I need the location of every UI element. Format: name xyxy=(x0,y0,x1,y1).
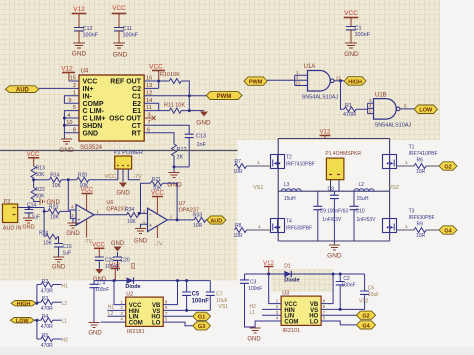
wire T2 gate xyxy=(247,165,271,167)
U1B pin numbers xyxy=(369,98,407,114)
net label L1 at LIN xyxy=(250,310,282,316)
wire PWM to U1A inputs xyxy=(267,75,307,85)
capacitor C7 10uF xyxy=(206,281,228,311)
diode D2 on rail xyxy=(125,277,140,290)
wire R20 to P2 pin1 / net VCC1 xyxy=(89,179,118,181)
feedback wire with R21 over U7 xyxy=(141,183,178,220)
wire divider node to R14 xyxy=(34,179,50,181)
svg-text:E2: E2 xyxy=(132,101,141,108)
node dot REF OUT xyxy=(157,80,160,83)
svg-text:4: 4 xyxy=(276,316,279,321)
svg-text:LOW: LOW xyxy=(16,318,30,324)
wire R10 to PWM net xyxy=(181,81,189,111)
power VCC above U7 xyxy=(151,191,164,215)
svg-text:Diode: Diode xyxy=(284,277,299,283)
svg-text:SN54ALS10AJ: SN54ALS10AJ xyxy=(375,123,412,129)
resistor R6 10R (T1 gate) xyxy=(414,158,426,176)
svg-text:E1: E1 xyxy=(132,108,141,115)
port LOW (input, bottom-left) xyxy=(10,318,34,325)
wire bridge left rail xyxy=(277,139,279,242)
resistor R12 2K xyxy=(172,144,187,167)
wire P3 pin1 to input node xyxy=(18,207,44,209)
ground below bridge xyxy=(327,241,342,260)
svg-text:+: + xyxy=(78,218,81,224)
svg-text:GND: GND xyxy=(113,52,128,59)
speaker connector P1 4OHMSPKR xyxy=(325,151,361,191)
svg-text:470R: 470R xyxy=(41,343,53,349)
node on U1A output xyxy=(339,79,342,82)
svg-text:AUD: AUD xyxy=(210,218,222,224)
wire CT to C13 xyxy=(144,125,189,134)
svg-text:1: 1 xyxy=(121,299,124,304)
svg-text:470R: 470R xyxy=(41,324,53,330)
resistor R9 10R (T3 gate) xyxy=(414,222,426,240)
ground below C11 xyxy=(113,43,128,59)
U2 pin numbers xyxy=(121,299,169,321)
U4 right pin numbers xyxy=(146,76,152,134)
capacitor C9 xyxy=(313,191,322,241)
wire R22 bottom to sideways ground xyxy=(34,200,40,202)
svg-text:C11: C11 xyxy=(123,26,133,32)
power V12 above bridge xyxy=(320,130,331,139)
wire U7 plus input to ground xyxy=(141,224,148,228)
wire R11 to GND xyxy=(181,110,204,112)
svg-text:1: 1 xyxy=(276,298,279,303)
svg-text:GND: GND xyxy=(52,265,66,271)
svg-text:10K: 10K xyxy=(43,240,53,246)
op-amp U6 OPA237 xyxy=(76,200,127,225)
svg-text:G4: G4 xyxy=(444,228,452,234)
svg-text:100nF: 100nF xyxy=(341,283,355,289)
svg-text:10R: 10R xyxy=(234,169,244,175)
wire T1 gate xyxy=(397,165,415,167)
svg-text:V12: V12 xyxy=(61,66,73,73)
svg-text:LO: LO xyxy=(310,319,319,325)
node dots on U2 rail xyxy=(113,279,189,282)
wire bridge top rail xyxy=(278,138,389,140)
resistor R5 470R xyxy=(41,333,62,349)
svg-text:C13: C13 xyxy=(196,134,206,140)
svg-text:4: 4 xyxy=(121,317,124,322)
svg-text:R13: R13 xyxy=(36,166,45,172)
bottom gray strip xyxy=(0,347,474,355)
svg-text:13: 13 xyxy=(295,81,301,86)
capacitor C15 1uF xyxy=(54,244,72,258)
svg-text:PWM: PWM xyxy=(217,94,232,100)
svg-text:VS1: VS1 xyxy=(253,185,263,191)
resistor R23 10K xyxy=(48,205,60,221)
svg-text:OSC OUT: OSC OUT xyxy=(109,116,142,123)
svg-text:VCC: VCC xyxy=(81,188,94,194)
svg-text:D2: D2 xyxy=(129,263,135,270)
op-amp controller U4 SG3524 body xyxy=(79,69,144,152)
svg-text:U2: U2 xyxy=(126,291,133,297)
wire U1A output to HIGH xyxy=(334,80,344,82)
svg-text:R9: R9 xyxy=(417,222,424,228)
ground below R12 xyxy=(167,167,182,189)
U4 left pin numbers xyxy=(66,76,76,134)
svg-text:T2: T2 xyxy=(286,155,292,161)
wire U2 supply rail xyxy=(94,280,210,282)
power VCC (top, second column) xyxy=(112,5,126,28)
svg-text:GND: GND xyxy=(72,51,87,58)
svg-text:-: - xyxy=(78,208,80,214)
driver U2 IR2181 body xyxy=(126,291,164,335)
svg-text:R14: R14 xyxy=(50,173,59,179)
svg-text:R5: R5 xyxy=(42,333,49,339)
svg-text:VCC: VCC xyxy=(112,5,126,12)
port G4 (driver output) xyxy=(356,321,375,330)
wire T4 gate xyxy=(247,229,271,231)
wire REF OUT row xyxy=(144,81,169,88)
U6 input/output pin numbers xyxy=(71,205,100,219)
svg-text:C2: C2 xyxy=(132,86,141,93)
U1A pin numbers xyxy=(295,70,341,86)
svg-text:L2: L2 xyxy=(108,311,114,317)
svg-text:V12: V12 xyxy=(73,6,85,13)
power VCC above U6 xyxy=(81,188,94,211)
power VCC above R13 xyxy=(27,152,40,166)
ground (sideways) at R22 xyxy=(40,199,61,207)
svg-text:15uH: 15uH xyxy=(284,196,296,202)
U4 right pin names xyxy=(109,79,142,138)
svg-text:-7V: -7V xyxy=(154,242,163,248)
svg-text:IN-: IN- xyxy=(83,93,93,100)
capacitor C1 xyxy=(347,26,371,44)
svg-text:L3: L3 xyxy=(284,182,290,188)
svg-text:U6: U6 xyxy=(106,200,113,206)
sheet background patch near U3 xyxy=(271,269,333,292)
wire U2 VB to rail xyxy=(163,281,177,305)
svg-text:LOW: LOW xyxy=(419,108,433,114)
net label H1 at HIN xyxy=(108,305,126,311)
resistor R33 10R xyxy=(193,213,206,230)
svg-text:GND: GND xyxy=(196,120,211,127)
svg-text:1uF: 1uF xyxy=(63,251,72,257)
ground label above C20 xyxy=(111,241,125,257)
svg-text:470R: 470R xyxy=(343,112,356,118)
connector P3 AUD IN xyxy=(3,199,22,232)
svg-text:10R: 10R xyxy=(416,233,426,239)
wire T3 gate xyxy=(397,229,415,231)
resistor R1 470R xyxy=(343,103,356,118)
power V12 above U2 rail xyxy=(109,263,120,281)
svg-text:U1B: U1B xyxy=(375,93,387,99)
svg-text:+: + xyxy=(149,223,152,229)
capacitor C12 xyxy=(75,26,99,43)
svg-text:2: 2 xyxy=(121,305,124,310)
wire U3 COM to ground xyxy=(255,321,281,328)
wire C1 row to PWM port xyxy=(144,95,206,97)
wire U6 output to R34 xyxy=(94,214,126,216)
U2 pin names xyxy=(129,303,143,326)
svg-text:10R: 10R xyxy=(193,223,203,229)
sheet background top band xyxy=(0,0,440,140)
svg-text:GND: GND xyxy=(327,253,342,260)
resistor R24 10K xyxy=(39,231,57,247)
svg-text:U1A: U1A xyxy=(304,64,316,70)
svg-text:1nF/63V: 1nF/63V xyxy=(357,217,377,223)
power V12 above U3 rail xyxy=(263,261,274,274)
svg-text:10K: 10K xyxy=(36,172,46,178)
svg-text:L2: L2 xyxy=(62,301,68,307)
net label L2 at LIN xyxy=(108,311,126,317)
svg-text:L1: L1 xyxy=(62,319,68,325)
ground stub at U6 plus input xyxy=(66,218,80,237)
svg-text:R4: R4 xyxy=(42,314,49,320)
svg-text:HIGH: HIGH xyxy=(348,79,362,85)
svg-text:1: 1 xyxy=(257,160,260,165)
nand gate U1B SN54ALS10AJ xyxy=(374,93,412,129)
svg-text:1nF: 1nF xyxy=(197,142,207,148)
svg-text:100nF: 100nF xyxy=(192,298,210,304)
wire U2 VCC pin to rail xyxy=(114,281,126,305)
net -7V below U6 xyxy=(84,220,93,246)
svg-text:7: 7 xyxy=(323,310,326,315)
U7 pin numbers xyxy=(143,209,173,226)
wire U3 supply rail xyxy=(245,273,365,275)
resistor R14 10K xyxy=(49,173,61,189)
resistor R22 10K xyxy=(31,187,45,200)
port G1 xyxy=(193,312,211,321)
resistor R34 10K xyxy=(125,207,138,225)
transistor T4 IRF630PBF (bottom-left) xyxy=(271,219,313,233)
svg-text:T4: T4 xyxy=(286,219,292,225)
capacitor C4 100nF xyxy=(90,281,110,323)
svg-text:8: 8 xyxy=(323,298,326,303)
svg-text:1: 1 xyxy=(405,160,408,165)
svg-text:H1: H1 xyxy=(62,284,69,290)
port HIGH (input, bottom-left) xyxy=(11,301,36,308)
svg-text:2: 2 xyxy=(276,304,279,309)
svg-text:VCC: VCC xyxy=(151,191,164,197)
transistor T3 IRF630PBF (bottom-right) xyxy=(383,209,435,233)
svg-text:REF OUT: REF OUT xyxy=(110,79,141,86)
inductor L2 15uH xyxy=(354,182,374,202)
svg-text:10R: 10R xyxy=(416,169,426,175)
net -7V below U7 xyxy=(154,226,163,248)
svg-text:IRF630PBF: IRF630PBF xyxy=(286,226,312,232)
wire C LIM- / C LIM+ / SHDN / GND tie xyxy=(64,111,79,139)
svg-text:1: 1 xyxy=(405,224,408,229)
inductor L3 15uH xyxy=(281,182,301,202)
resistor R4 470R xyxy=(41,314,62,330)
port AUD (output of preamp) xyxy=(207,216,226,225)
svg-text:R1010K: R1010K xyxy=(160,72,180,78)
wire R14 to inverting node xyxy=(61,179,77,181)
svg-text:C5: C5 xyxy=(192,291,200,297)
svg-text:G2: G2 xyxy=(362,314,369,320)
svg-text:H2: H2 xyxy=(62,338,69,344)
svg-text:7: 7 xyxy=(165,311,168,316)
wire R9 to port G4 xyxy=(426,229,439,231)
svg-text:SN54ALS10AJ: SN54ALS10AJ xyxy=(302,95,339,101)
capacitor C25 100nF xyxy=(95,257,119,270)
svg-text:SHDN: SHDN xyxy=(83,123,103,130)
svg-text:Diode: Diode xyxy=(125,284,140,290)
svg-text:C14: C14 xyxy=(27,203,36,209)
svg-text:GND: GND xyxy=(111,241,125,247)
wire U3 VB to rail xyxy=(321,274,333,304)
wire U2 HO to G1 xyxy=(163,315,193,317)
wire pin15 stub xyxy=(69,80,79,82)
wire LOW split xyxy=(34,320,41,339)
svg-text:IRF7410PBF: IRF7410PBF xyxy=(286,162,315,168)
ground below C12 xyxy=(72,43,87,58)
value labels C9/C8/C10 xyxy=(320,209,377,224)
svg-text:OPA237: OPA237 xyxy=(106,207,126,213)
svg-text:100nF: 100nF xyxy=(83,33,99,39)
port PWM (input to U1A) xyxy=(244,77,267,86)
wire U3 LO to G4 xyxy=(321,321,356,325)
svg-text:15uH: 15uH xyxy=(357,196,369,202)
wire U3 HO to G2 xyxy=(321,314,356,316)
resistor R20 10K xyxy=(77,173,89,189)
svg-text:P1 4OHMSPKR: P1 4OHMSPKR xyxy=(325,151,361,157)
svg-text:R20: R20 xyxy=(78,173,87,179)
svg-text:100nF/63: 100nF/63 xyxy=(327,209,348,215)
svg-text:6: 6 xyxy=(323,304,326,309)
connector P2 POWER xyxy=(114,150,143,182)
capacitor C20 xyxy=(113,257,130,271)
svg-text:C3: C3 xyxy=(250,280,257,286)
svg-text:C10: C10 xyxy=(356,209,365,215)
svg-text:C 4: C 4 xyxy=(97,281,105,287)
svg-text:D1: D1 xyxy=(284,264,291,270)
svg-text:R3: R3 xyxy=(42,296,49,302)
svg-text:5: 5 xyxy=(165,317,168,322)
svg-text:HIGH: HIGH xyxy=(17,301,31,307)
svg-text:COM: COM xyxy=(129,320,143,326)
no-connect on OSC OUT xyxy=(144,116,155,120)
svg-text:GND: GND xyxy=(116,191,130,197)
svg-text:10uF: 10uF xyxy=(368,292,379,298)
port PWM (output) xyxy=(206,92,242,100)
wire U2 VS row xyxy=(163,309,210,311)
resistor R7 10R (T2 gate) xyxy=(234,159,247,175)
svg-text:R2: R2 xyxy=(42,279,49,285)
U4 left pin names xyxy=(83,79,106,138)
svg-text:L2: L2 xyxy=(359,182,365,188)
svg-text:10R: 10R xyxy=(234,233,244,239)
svg-text:R6: R6 xyxy=(417,158,424,164)
wire R6 to port G2 xyxy=(426,165,439,167)
svg-text:T1: T1 xyxy=(409,145,415,151)
svg-text:G2: G2 xyxy=(444,164,451,170)
ground below C15 xyxy=(52,257,66,271)
resistor R21 10K xyxy=(150,177,162,192)
wire long horizontal net across sheet xyxy=(0,150,238,152)
svg-text:IRF7410PBF: IRF7410PBF xyxy=(409,151,438,157)
svg-text:P2 POWER: P2 POWER xyxy=(114,150,143,156)
svg-text:R33: R33 xyxy=(193,213,202,219)
svg-text:C LIM+: C LIM+ xyxy=(83,116,106,123)
svg-text:2K: 2K xyxy=(177,155,184,161)
wire R34 to U7 minus input xyxy=(138,213,147,215)
svg-text:T3: T3 xyxy=(409,209,415,215)
svg-text:C20: C20 xyxy=(121,258,130,264)
svg-text:10K: 10K xyxy=(52,183,62,189)
svg-text:R24: R24 xyxy=(39,231,48,237)
ground at U3 COM xyxy=(247,328,261,343)
port LOW (from U1B) xyxy=(414,105,437,114)
svg-text:GND: GND xyxy=(66,231,80,237)
svg-text:R7: R7 xyxy=(235,159,242,165)
svg-text:V12: V12 xyxy=(320,130,331,136)
node inverting input feed xyxy=(67,178,70,181)
svg-text:R8: R8 xyxy=(235,223,242,229)
svg-text:GND: GND xyxy=(134,239,148,245)
svg-text:GND: GND xyxy=(247,337,261,343)
svg-text:H1: H1 xyxy=(108,305,115,311)
capacitor C14 1uF xyxy=(24,203,40,221)
svg-text:R1: R1 xyxy=(345,103,352,109)
svg-text:100nF: 100nF xyxy=(355,32,371,38)
wire U1B output to LOW xyxy=(400,108,414,110)
U3 pin numbers xyxy=(276,298,326,320)
wire AUD to IN+ xyxy=(39,87,79,89)
svg-text:AUD: AUD xyxy=(16,88,30,94)
wire HIGH split xyxy=(36,285,41,304)
wire U2 COM to ground xyxy=(101,321,126,323)
svg-text:5: 5 xyxy=(323,316,326,321)
capacitor C6 10uF xyxy=(360,274,379,309)
svg-text:VCC1: VCC1 xyxy=(105,174,120,180)
wire bridge right rail xyxy=(389,139,391,242)
svg-text:6: 6 xyxy=(165,305,168,310)
capacitor C13 1nF xyxy=(185,134,207,167)
wire U3 VCC pin to rail xyxy=(269,274,281,304)
port G2 (driver output) xyxy=(356,311,375,320)
port G4 (to T3 gate) xyxy=(439,226,457,235)
node R13/R22 junction xyxy=(32,178,35,181)
port G3 xyxy=(193,322,211,331)
svg-text:8: 8 xyxy=(165,299,168,304)
svg-text:LO: LO xyxy=(152,320,161,326)
wire bridge bottom rail xyxy=(278,240,389,242)
wire input node down xyxy=(43,208,45,237)
svg-text:VS1: VS1 xyxy=(219,304,229,310)
ground below C1 xyxy=(344,43,359,58)
svg-text:-7V: -7V xyxy=(133,174,142,180)
svg-text:C15: C15 xyxy=(63,244,72,250)
svg-text:10K: 10K xyxy=(127,219,137,225)
wire R1 to U1B inputs xyxy=(356,103,374,113)
power V12 (top left) xyxy=(73,6,86,28)
svg-text:COM: COM xyxy=(284,319,298,325)
svg-text:L1: L1 xyxy=(250,310,256,316)
power VCC above C25 xyxy=(92,243,105,258)
wire E2/E1 tie xyxy=(144,103,169,110)
svg-text:R23: R23 xyxy=(49,205,58,211)
svg-text:470R: 470R xyxy=(41,306,53,312)
svg-text:IN+: IN+ xyxy=(83,86,94,93)
svg-text:C9: C9 xyxy=(320,209,327,215)
svg-text:CT: CT xyxy=(132,123,142,130)
port AUD (input to IN+) xyxy=(5,86,39,94)
node junction dots on U4 left tie xyxy=(63,117,66,127)
capacitor C3 100nF xyxy=(240,274,262,327)
resistor R3 470R xyxy=(41,296,62,312)
ground at U7 plus input xyxy=(134,229,148,245)
op-amp U7 OPA237 xyxy=(148,201,199,232)
svg-text:100nF: 100nF xyxy=(123,33,139,39)
capacitor C2 100nF (bootstrap) xyxy=(336,274,356,309)
svg-text:1: 1 xyxy=(258,224,261,229)
wire bridge mid rail xyxy=(278,190,389,192)
wire C13/R12 bottoms tie xyxy=(174,166,189,168)
svg-text:IRF630PBF: IRF630PBF xyxy=(409,215,435,221)
